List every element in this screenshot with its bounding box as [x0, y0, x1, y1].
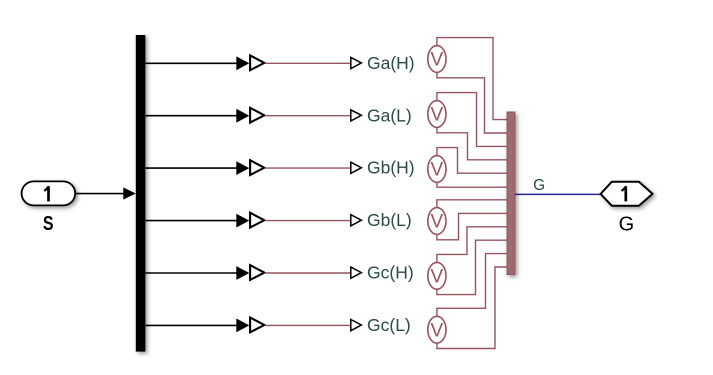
wire S to demux [75, 187, 136, 199]
wire demux output 2 [145, 109, 249, 123]
signal converter 3 (hollow triangle) [250, 160, 264, 175]
port label triangle Ga(L) [351, 110, 362, 121]
signal converter 5 (hollow triangle) [250, 265, 264, 280]
wire mux to outport (signal G) [515, 193, 601, 195]
wire converter 6 to label [265, 324, 351, 326]
wire demux output 5 [145, 266, 249, 280]
net label G [533, 177, 545, 194]
label G [619, 213, 635, 235]
signal converter 4 (hollow triangle) [250, 213, 264, 228]
voltage measurement U6 [428, 316, 446, 343]
svg-text:Ga(H): Ga(H) [367, 53, 415, 73]
wire U1 bottom terminal to mux input 2 [437, 72, 507, 133]
port label triangle Gc(H) [351, 267, 362, 278]
port label triangle Ga(H) [351, 57, 362, 68]
wire U3 top terminal to mux input 5 [437, 148, 507, 174]
wire U6 top terminal to mux input 11 [437, 254, 507, 317]
wire U2 bottom terminal to mux input 4 [437, 127, 507, 159]
svg-text:Ga(L): Ga(L) [367, 105, 412, 125]
svg-text:V: V [431, 160, 444, 181]
demux (bus selector bar) [136, 35, 146, 352]
svg-text:V: V [431, 105, 444, 126]
wire converter 2 to label [265, 115, 351, 117]
wire demux output 1 [145, 56, 249, 70]
wire converter 3 to label [265, 167, 351, 169]
wire U3 bottom terminal to mux input 6 [437, 182, 507, 187]
svg-text:Gb(H): Gb(H) [367, 158, 415, 178]
wire U2 top terminal to mux input 3 [437, 93, 507, 147]
wire demux output 6 [145, 319, 249, 333]
voltage measurement U1 [428, 46, 446, 73]
voltage measurement U4 [428, 208, 446, 235]
wire U5 top terminal to mux input 9 [437, 227, 507, 263]
voltage measurement U3 [428, 156, 446, 183]
svg-text:Gc(L): Gc(L) [367, 315, 411, 335]
svg-text:S: S [43, 211, 54, 234]
label text Gc(H) [367, 263, 414, 283]
label text Gc(L) [367, 315, 411, 335]
voltage measurement U5 [428, 262, 446, 289]
svg-text:V: V [431, 267, 444, 288]
wire U4 top terminal to mux input 7 [437, 200, 507, 208]
outport 1 (G) [601, 182, 653, 206]
svg-text:Gc(H): Gc(H) [367, 263, 414, 283]
wire U4 bottom terminal to mux input 8 [437, 213, 507, 239]
wire U5 bottom terminal to mux input 10 [437, 240, 507, 294]
svg-text:V: V [431, 320, 444, 341]
wire converter 5 to label [265, 272, 351, 274]
voltage measurement U2 [428, 101, 446, 128]
wire U1 top terminal to mux input 1 [437, 38, 507, 120]
svg-text:G: G [619, 213, 635, 235]
wire converter 4 to label [265, 220, 351, 222]
mux bar [507, 112, 515, 275]
port label triangle Gb(H) [351, 162, 362, 173]
signal converter 6 (hollow triangle) [250, 318, 264, 333]
inport 1 (S) [22, 181, 76, 205]
wire demux output 3 [145, 161, 249, 175]
wire demux output 4 [145, 214, 249, 228]
port label triangle Gc(L) [351, 320, 362, 331]
port label triangle Gb(L) [351, 215, 362, 226]
label text Gb(L) [367, 210, 412, 230]
label text Ga(L) [367, 105, 412, 125]
svg-text:Gb(L): Gb(L) [367, 210, 412, 230]
svg-text:V: V [431, 50, 444, 71]
wire converter 1 to label [265, 62, 351, 64]
label S [43, 211, 54, 234]
svg-text:V: V [431, 212, 444, 233]
label text Gb(H) [367, 158, 415, 178]
wire U6 bottom terminal to mux input 12 [437, 267, 507, 349]
signal converter 2 (hollow triangle) [250, 108, 264, 123]
svg-text:G: G [533, 177, 545, 194]
label text Ga(H) [367, 53, 415, 73]
signal converter 1 (hollow triangle) [250, 55, 264, 70]
